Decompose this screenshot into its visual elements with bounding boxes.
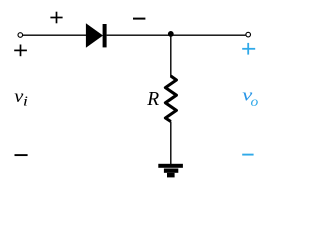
label + (input plus, below terminal): [14, 45, 27, 57]
input terminal (open circle): [18, 33, 23, 38]
svg-text:o: o: [251, 95, 259, 110]
ground: [158, 164, 183, 178]
diode D (cathode bar): [103, 24, 107, 47]
diode D (anode triangle): [86, 23, 103, 48]
resistor R (zigzag): [165, 76, 176, 122]
label + (output plus, cyan): [242, 43, 255, 55]
label vi (input voltage): [14, 87, 28, 109]
svg-text:i: i: [23, 94, 29, 110]
output terminal (open circle): [246, 32, 251, 37]
label − (input minus, bottom left): [15, 154, 28, 156]
label vo (output voltage): [242, 86, 258, 110]
wire (junction down to resistor): [170, 35, 172, 77]
label − (above wire after diode): [133, 18, 145, 20]
wire (input terminal to diode anode): [23, 34, 87, 36]
svg-text:R: R: [146, 89, 159, 110]
node (junction dot): [168, 31, 174, 37]
label − (output minus, cyan): [242, 154, 253, 156]
label + (above input wire): [50, 12, 62, 24]
wire (diode cathode to output terminal): [107, 34, 246, 36]
wire (resistor to ground): [170, 122, 172, 166]
